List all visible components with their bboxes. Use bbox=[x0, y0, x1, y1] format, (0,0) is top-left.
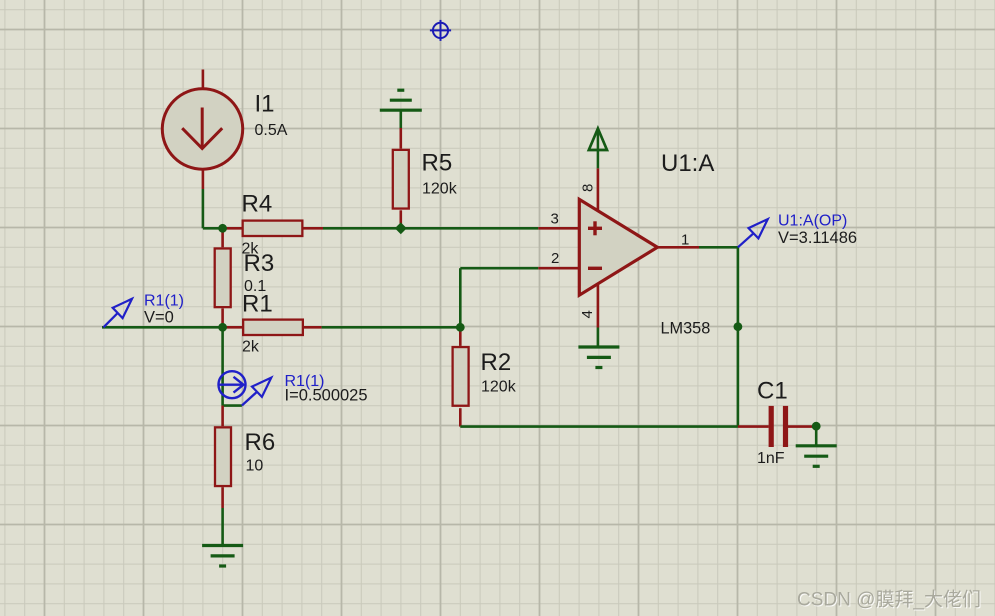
svg-text:U1:A(OP): U1:A(OP) bbox=[778, 213, 847, 230]
svg-text:120k: 120k bbox=[422, 181, 458, 198]
svg-text:R2: R2 bbox=[481, 349, 512, 376]
svg-text:R6: R6 bbox=[245, 429, 276, 456]
svg-text:R5: R5 bbox=[422, 150, 453, 177]
svg-text:I1: I1 bbox=[255, 91, 275, 118]
svg-text:U1:A: U1:A bbox=[661, 150, 714, 177]
svg-text:2: 2 bbox=[551, 250, 559, 267]
svg-text:I=0.500025: I=0.500025 bbox=[285, 387, 368, 405]
svg-text:8: 8 bbox=[580, 184, 597, 192]
svg-text:R1: R1 bbox=[242, 291, 273, 318]
svg-text:1nF: 1nF bbox=[757, 450, 785, 467]
svg-text:LM358: LM358 bbox=[661, 320, 711, 338]
svg-text:4: 4 bbox=[579, 310, 596, 318]
svg-text:3: 3 bbox=[551, 211, 559, 228]
svg-text:R4: R4 bbox=[242, 190, 273, 217]
svg-text:V=0: V=0 bbox=[144, 308, 174, 326]
svg-text:10: 10 bbox=[246, 458, 264, 475]
svg-text:R1(1): R1(1) bbox=[144, 293, 184, 310]
svg-text:R3: R3 bbox=[244, 250, 275, 277]
svg-text:120k: 120k bbox=[481, 379, 517, 396]
svg-text:1: 1 bbox=[681, 231, 689, 248]
svg-text:2k: 2k bbox=[242, 339, 260, 356]
svg-text:0.5A: 0.5A bbox=[255, 122, 288, 139]
svg-text:CSDN @膜拜_大佬们: CSDN @膜拜_大佬们 bbox=[797, 589, 981, 611]
svg-text:C1: C1 bbox=[757, 378, 788, 405]
svg-text:V=3.11486: V=3.11486 bbox=[778, 229, 857, 247]
